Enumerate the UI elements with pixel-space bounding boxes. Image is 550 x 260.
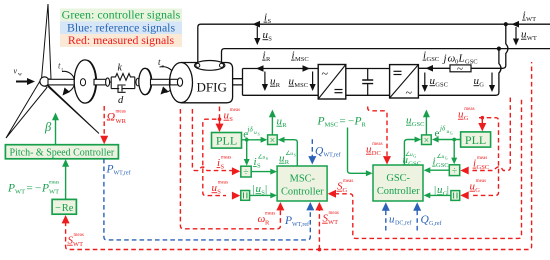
current arrow i_GSC bbox=[423, 50, 440, 72]
svg-text:S: S bbox=[217, 189, 221, 196]
svg-text:β: β bbox=[44, 120, 52, 134]
wind turbine blades and hub bbox=[6, 4, 99, 138]
svg-text:S: S bbox=[268, 36, 272, 43]
svg-text:meas: meas bbox=[49, 181, 59, 186]
svg-text:S: S bbox=[268, 18, 272, 25]
DFIG machine body bbox=[170, 63, 233, 103]
GSC-Controller U3 bbox=[373, 165, 423, 201]
arrow into multiplier X1 bbox=[261, 137, 268, 143]
svg-text:MSC: MSC bbox=[325, 122, 339, 129]
svg-text:|: | bbox=[434, 184, 436, 196]
current arrow i_R bbox=[256, 50, 271, 72]
turbine inertia disk bbox=[74, 60, 96, 103]
wire P_MSC to GSC-Controller bbox=[348, 128, 367, 174]
node grid junction top bbox=[504, 22, 508, 26]
label omega_R meas bbox=[258, 212, 276, 227]
svg-text:P: P bbox=[354, 116, 362, 128]
measured i_S dashed line with hop bbox=[192, 109, 232, 171]
svg-text:v: v bbox=[14, 67, 18, 76]
svg-text:P: P bbox=[317, 116, 325, 128]
svg-text:Ω: Ω bbox=[107, 110, 116, 124]
label P_MSC = -P_R bbox=[317, 116, 367, 129]
wind speed arrow v_w bbox=[14, 67, 36, 86]
label u_S meas bottom bbox=[212, 181, 229, 196]
svg-text:G: G bbox=[450, 131, 453, 136]
electrical torque t_e curved arrow bbox=[158, 57, 176, 95]
DFIG slip ring collar bbox=[195, 61, 225, 71]
voltage arrow u_WT bbox=[513, 27, 537, 46]
label Omega_WR meas bbox=[107, 110, 127, 126]
svg-text:meas: meas bbox=[221, 156, 231, 161]
svg-text:GSC: GSC bbox=[477, 164, 490, 171]
svg-text:WT: WT bbox=[527, 35, 537, 42]
label u_DC meas bbox=[366, 142, 383, 157]
svg-text:WT,ref: WT,ref bbox=[324, 152, 341, 159]
reference P_WT dashed blue line bbox=[104, 159, 310, 240]
wire M1 to MSC-Controller bbox=[250, 194, 271, 196]
svg-text:R: R bbox=[266, 56, 271, 63]
inductor j w0 L_GSC bbox=[442, 53, 478, 76]
generator inertia disk bbox=[139, 68, 152, 94]
svg-text:meas: meas bbox=[230, 108, 240, 113]
label i_S meas bbox=[217, 156, 232, 171]
shaft end cap over DFIG face bbox=[170, 78, 183, 86]
PLL U1 stator bbox=[212, 133, 242, 149]
svg-text:WT,ref: WT,ref bbox=[292, 221, 309, 228]
DC link capacitor bbox=[362, 69, 373, 96]
svg-text:~: ~ bbox=[322, 67, 329, 81]
legend reference signals bbox=[60, 20, 182, 34]
measured u_S dashed line to PLL1 and M1 bbox=[203, 107, 226, 196]
svg-text:WT: WT bbox=[526, 16, 536, 23]
arrow into divider D1 bbox=[244, 159, 250, 166]
svg-text:G: G bbox=[464, 115, 469, 122]
svg-text:R: R bbox=[282, 122, 287, 129]
svg-text:meas: meas bbox=[464, 107, 474, 112]
label u_G meas bottom bbox=[470, 179, 487, 194]
svg-text:WR: WR bbox=[116, 118, 127, 125]
svg-text:k: k bbox=[118, 63, 123, 74]
svg-text:MSC: MSC bbox=[294, 82, 308, 89]
svg-text:meas: meas bbox=[74, 233, 84, 238]
label Q_WT,ref bbox=[315, 146, 341, 159]
svg-text:meas: meas bbox=[329, 211, 339, 216]
multiplier X2 bbox=[422, 135, 432, 146]
svg-text:=: = bbox=[27, 183, 33, 195]
svg-text:PLL: PLL bbox=[216, 134, 237, 148]
label abs u_S bbox=[253, 183, 268, 197]
svg-text:Pitch- & Speed Controller: Pitch- & Speed Controller bbox=[10, 148, 115, 159]
measured S_WT bus dashed bbox=[66, 62, 532, 250]
wire M2 to GSC-Controller bbox=[430, 194, 451, 196]
wire D2 to GSC-Controller bbox=[430, 169, 450, 171]
svg-text:GSC-: GSC- bbox=[386, 173, 410, 184]
wire PLL2 output e^jd_uG bbox=[438, 140, 461, 159]
svg-text:meas: meas bbox=[477, 156, 487, 161]
svg-text:÷: ÷ bbox=[452, 167, 457, 177]
label u_GSC angle uG bbox=[403, 151, 421, 168]
svg-text:DFIG: DFIG bbox=[197, 80, 227, 95]
label e^jd_uS bbox=[243, 126, 259, 141]
svg-text:×: × bbox=[424, 135, 430, 146]
measured u_DC dashed line bbox=[368, 107, 387, 158]
measured Omega_WR dashed line bbox=[103, 106, 105, 136]
low speed shaft bbox=[48, 79, 77, 85]
stator wire second line bbox=[222, 49, 550, 64]
svg-text:WT: WT bbox=[15, 189, 25, 196]
svg-text:e: e bbox=[435, 128, 440, 140]
svg-text:R: R bbox=[276, 82, 281, 89]
svg-text:R: R bbox=[285, 159, 290, 166]
svg-text:~: ~ bbox=[406, 86, 413, 100]
svg-text:S: S bbox=[229, 116, 233, 123]
svg-text:DC,ref: DC,ref bbox=[395, 220, 412, 227]
controller output arrow u_GSC up bbox=[406, 110, 430, 135]
label S_WT meas left bbox=[67, 233, 84, 248]
svg-text:G,ref: G,ref bbox=[429, 220, 442, 227]
spring k bbox=[110, 74, 137, 89]
svg-text:=: = bbox=[340, 116, 346, 128]
turbine torque t_t curved arrow bbox=[58, 61, 75, 96]
arrow into X2 right bbox=[432, 137, 439, 143]
svg-text:G: G bbox=[475, 187, 480, 194]
wire riser stator to GSC bottom with hop bbox=[418, 49, 501, 96]
label i_GSC angle uG bbox=[432, 153, 449, 169]
reference Q_WT dashed blue line bbox=[311, 139, 313, 157]
voltage arrow u_R bbox=[262, 72, 281, 92]
label u_S meas top bbox=[224, 108, 241, 123]
label u_G meas top bbox=[458, 107, 475, 122]
voltage arrow u_MSC bbox=[289, 72, 316, 92]
current arrow i_S bbox=[253, 12, 272, 28]
label u_R angle uS bbox=[279, 150, 296, 166]
svg-text:Red: measured signals: Red: measured signals bbox=[68, 33, 175, 47]
PLL U4 grid bbox=[461, 132, 491, 147]
label abs u_G bbox=[434, 184, 449, 198]
svg-text:meas: meas bbox=[265, 212, 275, 217]
current arrow i_WT bbox=[512, 10, 537, 28]
wire -Re to pitch controller bbox=[65, 166, 67, 200]
svg-text:meas: meas bbox=[218, 181, 228, 186]
node stator junction bbox=[497, 47, 501, 51]
label S_G meas bbox=[337, 179, 354, 194]
svg-text:meas: meas bbox=[476, 179, 486, 184]
label Q_G,ref bbox=[421, 214, 442, 227]
magnitude box M1 bbox=[241, 191, 250, 201]
svg-text:d: d bbox=[118, 95, 124, 106]
high speed shaft into DFIG bbox=[151, 78, 183, 86]
node e_uS junction bbox=[245, 138, 249, 142]
svg-text:WT,ref: WT,ref bbox=[114, 170, 131, 177]
pitch angle arrow beta bbox=[44, 113, 59, 145]
svg-text:PLL: PLL bbox=[465, 133, 486, 147]
voltage arrow u_S bbox=[254, 27, 272, 46]
svg-text:R: R bbox=[265, 220, 270, 227]
svg-text:Controller: Controller bbox=[377, 186, 420, 197]
label e^jd_uG bbox=[435, 125, 453, 140]
svg-text:meas: meas bbox=[372, 142, 382, 147]
voltage arrow u_GSC bbox=[422, 73, 448, 93]
label S_WT meas at MSC bbox=[322, 211, 339, 226]
magnitude box M2 bbox=[451, 191, 460, 201]
svg-text:jδ: jδ bbox=[439, 125, 446, 133]
svg-text:R: R bbox=[362, 122, 367, 129]
svg-text:P: P bbox=[106, 164, 114, 176]
svg-text:− Re: − Re bbox=[55, 203, 74, 214]
svg-text:−: − bbox=[348, 116, 354, 128]
damper d bbox=[111, 85, 135, 92]
svg-text:WT: WT bbox=[49, 189, 59, 196]
svg-text:DC: DC bbox=[372, 150, 381, 157]
svg-text:GSC: GSC bbox=[427, 56, 440, 63]
svg-text:MSC: MSC bbox=[295, 56, 309, 63]
svg-text:S: S bbox=[266, 156, 268, 161]
arrow into divider D2 bbox=[451, 158, 457, 165]
label P_WT = -P_WT meas bbox=[7, 181, 59, 196]
measured S_G dashed line bbox=[335, 99, 522, 238]
svg-text:P: P bbox=[7, 183, 15, 195]
current arrow i_MSC bbox=[291, 50, 310, 72]
reference u_DC dashed blue line bbox=[385, 210, 387, 231]
svg-text:S: S bbox=[221, 164, 225, 171]
Pitch and Speed Controller U5 bbox=[5, 145, 118, 159]
wire PLL1 output e^jd_uS bbox=[242, 140, 262, 160]
label i_GSC meas bbox=[473, 156, 490, 171]
svg-text:P: P bbox=[41, 183, 49, 195]
svg-text:GSC: GSC bbox=[435, 82, 448, 89]
svg-text:S: S bbox=[257, 163, 261, 170]
MSC-Controller U2 bbox=[277, 166, 327, 201]
svg-text:G: G bbox=[413, 154, 416, 159]
measured u_G dashed line to PLL2 and M2 bbox=[470, 118, 499, 196]
svg-text:meas: meas bbox=[343, 179, 353, 184]
svg-text:MSC-: MSC- bbox=[290, 174, 316, 185]
stator wire top line bbox=[198, 24, 550, 63]
svg-text:÷: ÷ bbox=[243, 168, 248, 178]
divider D1 bbox=[241, 166, 251, 178]
measured omega_R dashed line bbox=[180, 109, 280, 229]
wire riser grid to inductor with hop bbox=[471, 24, 508, 68]
svg-text:WT: WT bbox=[73, 241, 83, 248]
converter MSC bbox=[318, 65, 346, 100]
svg-text:−: − bbox=[35, 183, 41, 195]
svg-text:jδ: jδ bbox=[247, 126, 254, 134]
legend controller signals bbox=[60, 8, 182, 22]
label i_S angle uS bbox=[253, 154, 268, 170]
svg-text:S: S bbox=[294, 153, 296, 158]
label P_WT,ref at MSC bbox=[284, 215, 309, 228]
wire D1 to MSC-Controller bbox=[251, 171, 271, 173]
DC link rails bbox=[346, 69, 390, 96]
svg-text:G: G bbox=[445, 156, 448, 161]
svg-text:GSC: GSC bbox=[436, 162, 449, 169]
svg-text:P: P bbox=[284, 215, 292, 227]
svg-text:WT: WT bbox=[328, 219, 338, 226]
divider D2 bbox=[449, 165, 459, 177]
node e_uG junction bbox=[452, 138, 456, 142]
svg-text:GSC: GSC bbox=[408, 161, 421, 168]
shaft disk to spring-damper bbox=[94, 78, 110, 86]
rotor loop wires bbox=[233, 69, 319, 96]
svg-text:G: G bbox=[343, 187, 348, 194]
label u_DC,ref bbox=[389, 214, 412, 227]
svg-text:GSC: GSC bbox=[465, 59, 478, 66]
minus Re block U6 bbox=[52, 199, 76, 214]
svg-text:meas: meas bbox=[116, 110, 126, 115]
controller output arrow u_R up bbox=[269, 110, 287, 135]
reference Q_G dashed blue line bbox=[416, 210, 418, 231]
multiplier X1 bbox=[268, 135, 278, 146]
voltage arrow u_G bbox=[474, 73, 496, 93]
GSC output wire bbox=[418, 67, 450, 69]
legend measured signals bbox=[60, 33, 182, 47]
wire u_R angle from MSC-Controller to X1 bbox=[284, 140, 297, 166]
shaft spring-damper to generator disk bbox=[136, 78, 142, 86]
label P_WT,ref left bbox=[106, 164, 131, 177]
svg-text:|: | bbox=[265, 183, 267, 195]
svg-text:S: S bbox=[258, 132, 260, 137]
svg-text:L: L bbox=[458, 53, 465, 65]
svg-text:×: × bbox=[270, 135, 276, 146]
wire u_GSC angle from GSC-Controller to X2 bbox=[404, 140, 415, 166]
svg-text:|: | bbox=[447, 184, 449, 196]
svg-text:w: w bbox=[18, 72, 22, 78]
measured i_GSC dashed line with hop bbox=[470, 98, 510, 171]
svg-text:|: | bbox=[253, 183, 255, 195]
svg-text:Controller: Controller bbox=[281, 187, 324, 198]
svg-text:GSC: GSC bbox=[412, 121, 425, 128]
svg-text:G: G bbox=[479, 82, 484, 89]
converter GSC bbox=[390, 65, 419, 100]
